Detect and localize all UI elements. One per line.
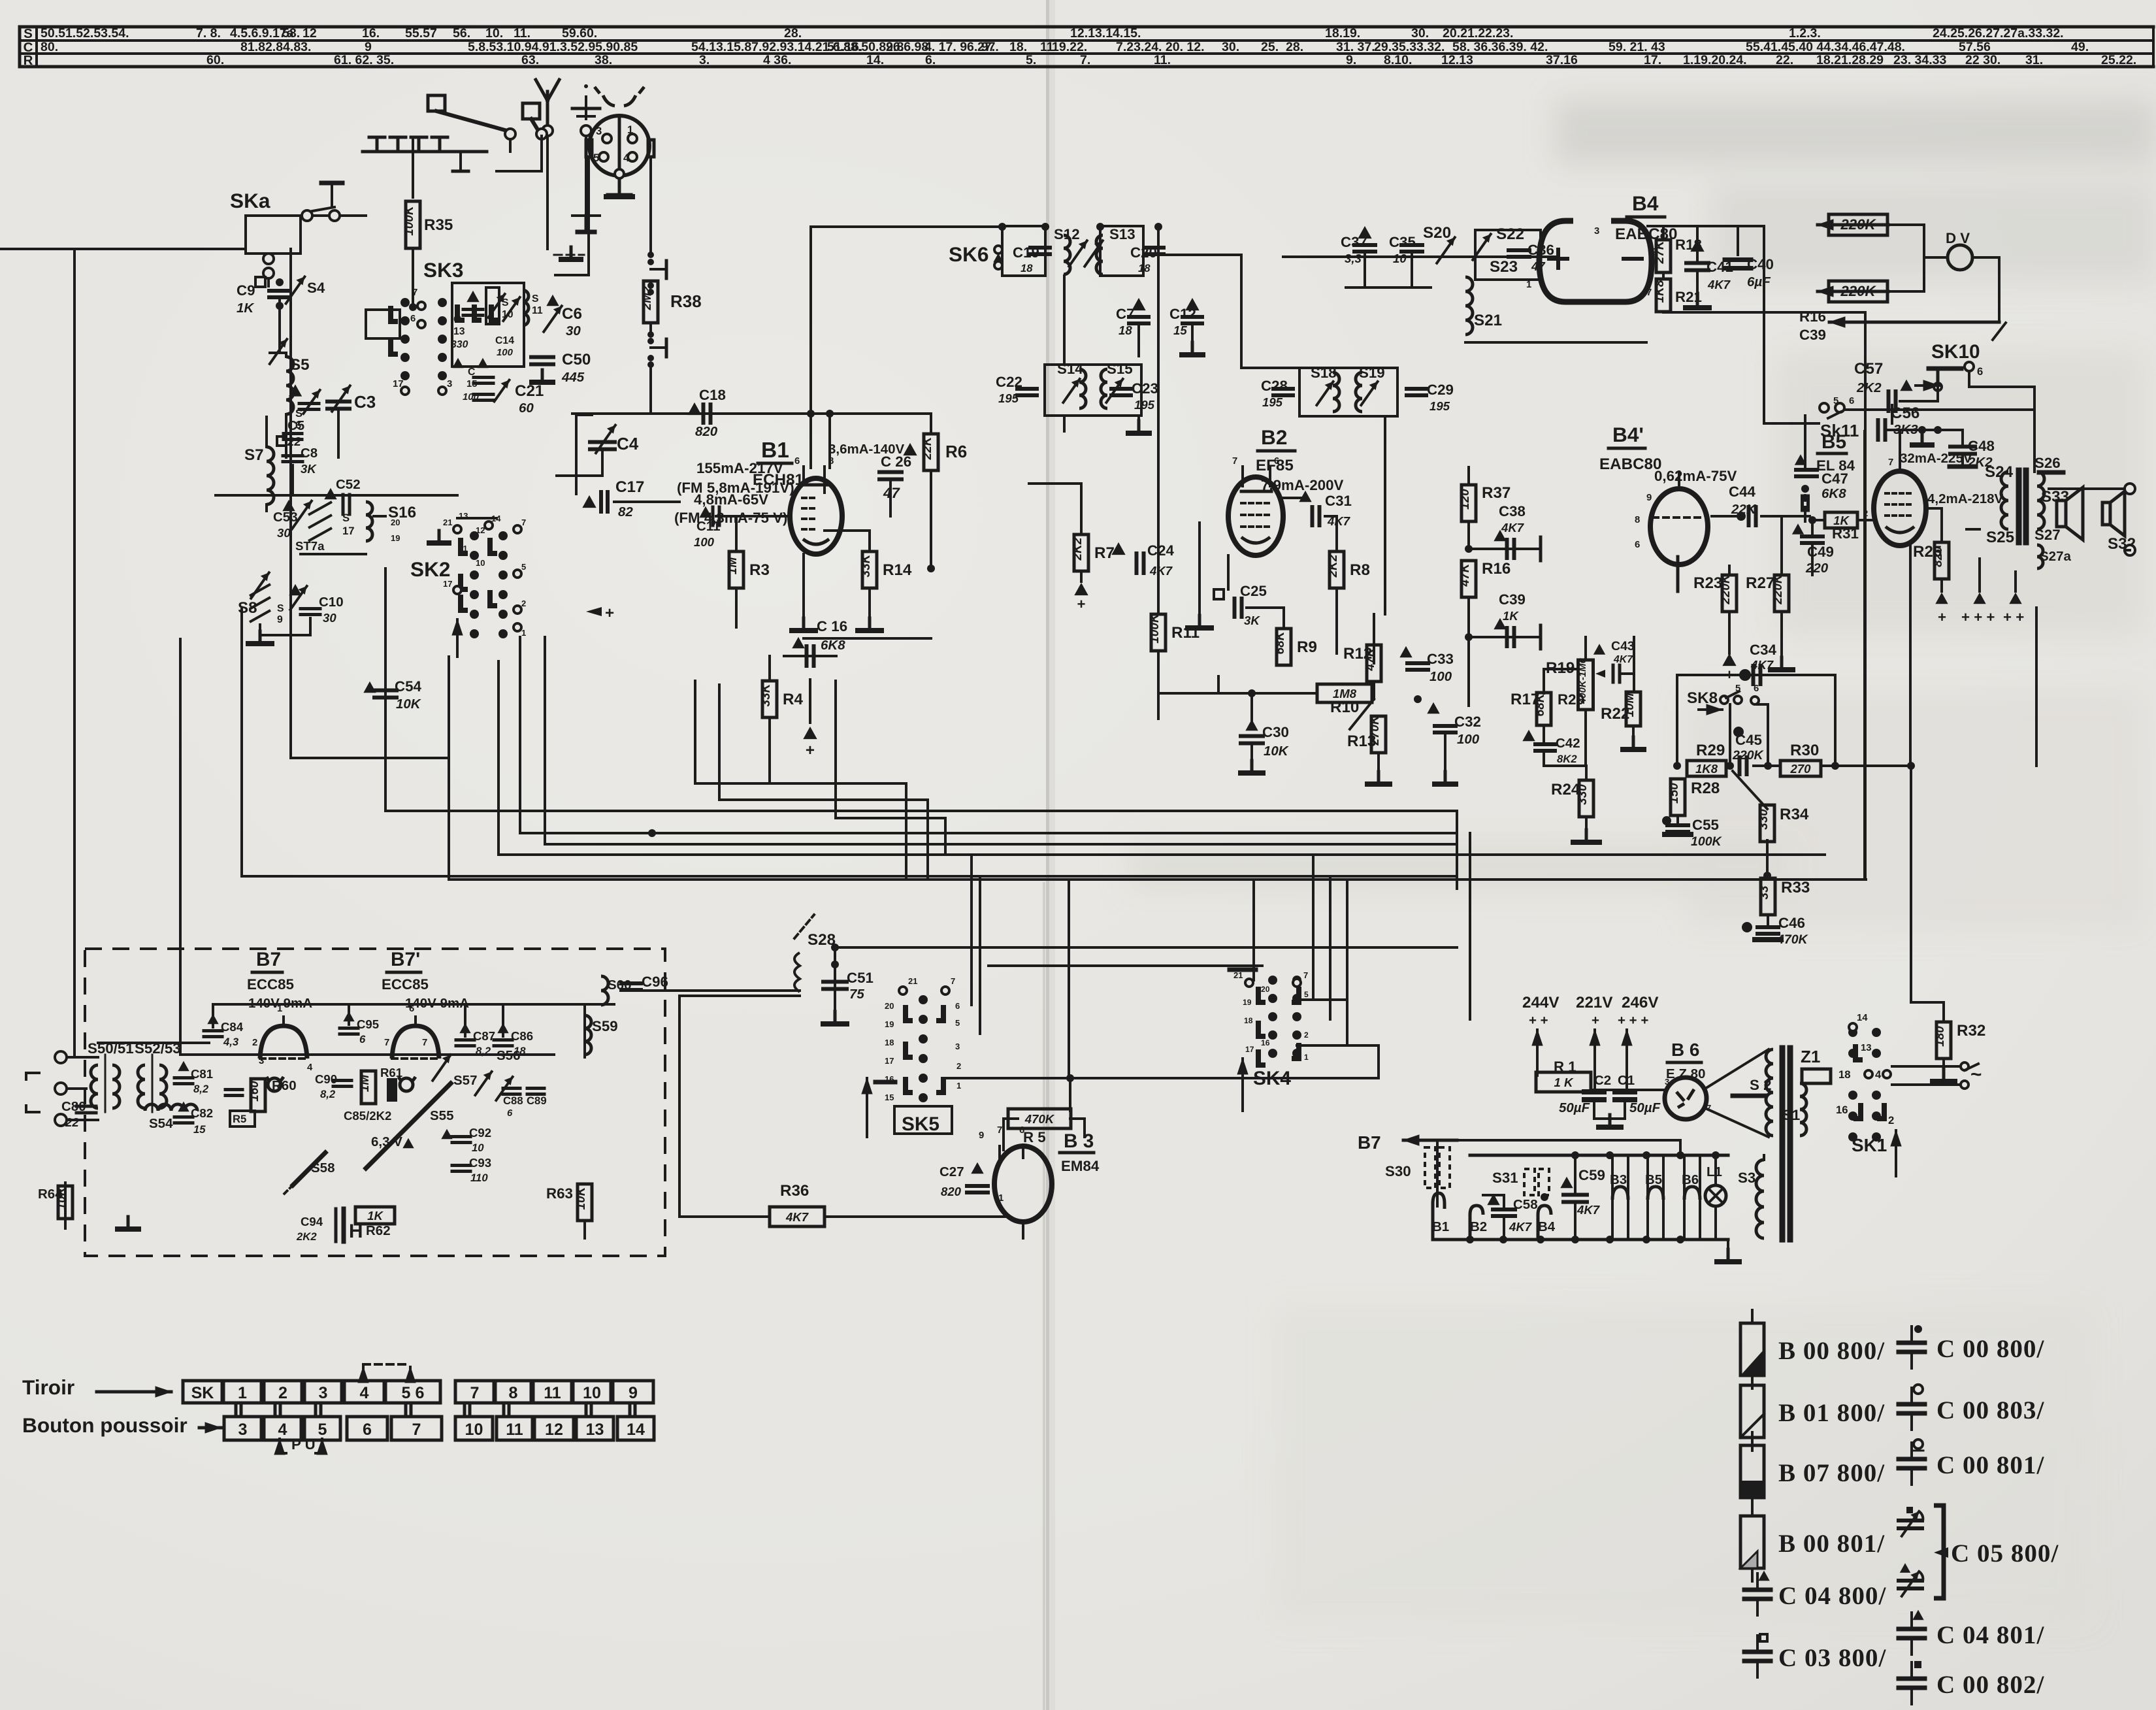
- svg-text:37.16: 37.16: [1546, 53, 1578, 67]
- svg-text:0,62mA-75V: 0,62mA-75V: [1654, 468, 1737, 484]
- svg-text:58. 36.36.39. 42.: 58. 36.36.39. 42.: [1452, 40, 1548, 54]
- svg-text:4K7: 4K7: [1501, 521, 1525, 534]
- svg-text:1: 1: [238, 1384, 247, 1402]
- svg-text:7.23.24. 20. 12.: 7.23.24. 20. 12.: [1116, 40, 1205, 54]
- svg-text:17: 17: [393, 379, 404, 389]
- svg-text:20: 20: [1261, 985, 1270, 994]
- svg-text:3,3: 3,3: [1345, 252, 1362, 265]
- svg-text:7: 7: [1232, 456, 1237, 467]
- svg-text:18: 18: [1119, 323, 1132, 337]
- svg-text:8: 8: [509, 1384, 518, 1402]
- svg-text:63.: 63.: [521, 53, 539, 67]
- svg-text:11: 11: [506, 1421, 523, 1439]
- svg-text:S13: S13: [1109, 226, 1135, 242]
- svg-text:C 05 800/: C 05 800/: [1951, 1539, 2059, 1568]
- svg-text:6: 6: [359, 1033, 366, 1045]
- svg-text:C31: C31: [1325, 493, 1352, 509]
- svg-text:1K: 1K: [367, 1209, 384, 1223]
- svg-text:C 00 800/: C 00 800/: [1936, 1335, 2044, 1363]
- svg-text:C3: C3: [354, 392, 376, 412]
- svg-text:10: 10: [502, 309, 514, 320]
- svg-text:7: 7: [412, 1421, 421, 1439]
- svg-text:3.: 3.: [699, 53, 710, 67]
- svg-text:195: 195: [1134, 398, 1155, 412]
- svg-text:11.: 11.: [514, 26, 531, 41]
- svg-text:5.: 5.: [1026, 53, 1036, 67]
- svg-text:S 2: S 2: [1750, 1077, 1771, 1093]
- svg-text:4: 4: [360, 1384, 369, 1402]
- svg-text:8,2: 8,2: [193, 1083, 209, 1095]
- svg-text:3: 3: [1665, 1077, 1669, 1087]
- svg-text:30: 30: [566, 323, 581, 338]
- svg-text:R7: R7: [1094, 544, 1115, 562]
- svg-text:C59: C59: [1578, 1167, 1605, 1183]
- svg-text:30.: 30.: [1222, 40, 1239, 54]
- svg-text:19: 19: [1243, 998, 1252, 1007]
- svg-text:23. 34.33: 23. 34.33: [1893, 53, 1946, 67]
- svg-text:C24: C24: [1147, 542, 1175, 559]
- svg-text:38.: 38.: [595, 53, 612, 67]
- svg-text:8: 8: [828, 456, 834, 467]
- svg-text:SK5: SK5: [902, 1113, 939, 1135]
- svg-text:1K: 1K: [1503, 609, 1519, 623]
- svg-text:R24: R24: [1551, 781, 1580, 798]
- svg-text:S24: S24: [1985, 463, 2014, 481]
- svg-text:1: 1: [627, 123, 633, 136]
- svg-text:1K: 1K: [237, 301, 255, 316]
- svg-text:4 36.: 4 36.: [763, 53, 791, 67]
- svg-text:100: 100: [1429, 669, 1452, 684]
- svg-text:B 3: B 3: [1064, 1130, 1094, 1152]
- svg-text:EABC80: EABC80: [1599, 455, 1661, 473]
- svg-text:25.: 25.: [1261, 40, 1279, 54]
- svg-text:C58: C58: [1513, 1197, 1538, 1212]
- svg-text:50.51.52.53.54.: 50.51.52.53.54.: [41, 26, 129, 41]
- svg-text:110: 110: [470, 1172, 488, 1184]
- svg-text:8K2: 8K2: [1557, 753, 1577, 765]
- svg-text:1: 1: [956, 1081, 961, 1091]
- svg-text:21: 21: [908, 976, 917, 986]
- svg-text:S1: S1: [1782, 1107, 1800, 1123]
- svg-text:47K: 47K: [1458, 563, 1472, 587]
- svg-text:4,3: 4,3: [223, 1036, 239, 1048]
- svg-text:B6: B6: [1682, 1172, 1699, 1187]
- svg-text:R28: R28: [1691, 780, 1720, 797]
- svg-text:C44: C44: [1729, 484, 1756, 500]
- svg-text:SK2: SK2: [410, 557, 450, 581]
- svg-text:100K: 100K: [1691, 834, 1723, 849]
- svg-text:SKa: SKa: [230, 189, 270, 212]
- svg-text:6: 6: [955, 1001, 960, 1011]
- svg-text:3K: 3K: [301, 462, 317, 476]
- svg-text:33: 33: [1757, 885, 1771, 900]
- svg-text:16: 16: [1836, 1104, 1848, 1116]
- svg-text:6: 6: [1019, 1125, 1024, 1136]
- svg-text:R23: R23: [1693, 574, 1722, 592]
- svg-text:30.: 30.: [1411, 26, 1429, 41]
- svg-text:R38: R38: [670, 291, 702, 311]
- svg-text:3: 3: [319, 1384, 328, 1402]
- svg-text:R37: R37: [1482, 484, 1511, 502]
- svg-text:12: 12: [476, 525, 485, 535]
- svg-text:8,2: 8,2: [476, 1045, 491, 1057]
- svg-text:1: 1: [277, 1004, 282, 1014]
- svg-text:12: 12: [302, 26, 317, 41]
- svg-text:C21: C21: [515, 382, 544, 400]
- svg-text:9.: 9.: [1346, 53, 1356, 67]
- svg-text:B5: B5: [1645, 1172, 1662, 1187]
- svg-text:8,2: 8,2: [320, 1088, 336, 1100]
- svg-text:18: 18: [885, 1038, 894, 1047]
- svg-text:18: 18: [514, 1045, 526, 1057]
- svg-text:1.19.20.24.: 1.19.20.24.: [1683, 53, 1747, 67]
- svg-text:57.56: 57.56: [1959, 40, 1991, 54]
- svg-text:C33: C33: [1427, 651, 1454, 667]
- svg-text:R35: R35: [424, 216, 453, 234]
- svg-text:C47: C47: [1821, 470, 1848, 487]
- svg-text:10.: 10.: [485, 26, 503, 41]
- svg-text:R8: R8: [1350, 561, 1370, 579]
- svg-text:7: 7: [422, 1038, 427, 1048]
- svg-text:C 26: C 26: [881, 453, 911, 470]
- svg-text:17: 17: [885, 1056, 894, 1066]
- svg-text:5: 5: [1833, 396, 1838, 406]
- svg-text:6: 6: [794, 456, 800, 467]
- svg-text:100: 100: [497, 348, 514, 358]
- svg-text:R25: R25: [1913, 543, 1942, 561]
- svg-text:R10: R10: [1330, 699, 1359, 716]
- svg-text:100: 100: [694, 535, 715, 549]
- svg-text:22.: 22.: [1776, 53, 1793, 67]
- svg-text:49.: 49.: [2071, 40, 2089, 54]
- svg-text:S: S: [502, 297, 509, 308]
- svg-text:55.57: 55.57: [405, 26, 437, 41]
- svg-text:C2: C2: [1594, 1073, 1611, 1088]
- svg-text:C 04 800/: C 04 800/: [1778, 1582, 1886, 1610]
- svg-text:18.21.28.29: 18.21.28.29: [1816, 53, 1884, 67]
- svg-text:9: 9: [277, 614, 283, 625]
- svg-text:29.35.33.32.: 29.35.33.32.: [1374, 40, 1445, 54]
- svg-text:6: 6: [410, 314, 416, 324]
- svg-text:+: +: [1725, 666, 1733, 683]
- svg-text:195: 195: [1262, 395, 1283, 409]
- svg-text:1K8: 1K8: [1653, 280, 1667, 303]
- svg-text:1: 1: [521, 628, 526, 638]
- svg-text:6µF: 6µF: [1747, 274, 1771, 289]
- svg-text:4K7: 4K7: [1613, 654, 1633, 665]
- svg-text:3: 3: [447, 379, 452, 389]
- svg-text:32mA-225V: 32mA-225V: [1900, 451, 1972, 466]
- svg-text:1M: 1M: [726, 557, 740, 575]
- svg-text:13: 13: [453, 326, 465, 337]
- svg-text:ST7a: ST7a: [295, 539, 325, 553]
- svg-text:SK10: SK10: [1931, 341, 1980, 363]
- svg-text:C43: C43: [1611, 639, 1635, 653]
- svg-text:C11: C11: [696, 519, 720, 534]
- svg-text:56.: 56.: [453, 26, 470, 41]
- svg-text:B4': B4': [1612, 423, 1644, 446]
- svg-text:17: 17: [1245, 1045, 1254, 1054]
- svg-text:C34: C34: [1750, 642, 1777, 658]
- svg-text:S30: S30: [1385, 1163, 1411, 1179]
- svg-text:10: 10: [476, 558, 485, 568]
- svg-text:4K7: 4K7: [1576, 1203, 1601, 1217]
- svg-text:11: 11: [459, 544, 468, 553]
- svg-text:12: 12: [545, 1421, 563, 1439]
- svg-text:4,8mA-65V: 4,8mA-65V: [694, 491, 768, 508]
- svg-text:C87: C87: [473, 1029, 495, 1043]
- svg-text:15: 15: [1173, 323, 1187, 337]
- svg-text:R3: R3: [749, 561, 770, 579]
- svg-text:C28: C28: [1261, 378, 1288, 394]
- svg-text:11.: 11.: [1154, 53, 1171, 67]
- svg-text:R16: R16: [1482, 560, 1511, 578]
- svg-text:S54: S54: [149, 1116, 173, 1131]
- svg-text:1K8: 1K8: [1695, 762, 1718, 776]
- svg-text:68K: 68K: [1273, 631, 1287, 654]
- svg-text:2: 2: [1304, 1030, 1309, 1040]
- svg-text:S58: S58: [311, 1160, 335, 1176]
- svg-text:R12: R12: [1343, 645, 1372, 663]
- svg-text:+: +: [1077, 596, 1085, 612]
- svg-text:13: 13: [1861, 1043, 1872, 1053]
- svg-text:D V: D V: [1946, 230, 1970, 246]
- svg-text:2: 2: [1863, 508, 1868, 518]
- svg-text:B3: B3: [1610, 1172, 1627, 1187]
- svg-text:(FM 4,3mA-75 V): (FM 4,3mA-75 V): [674, 510, 787, 526]
- svg-text:2K2: 2K2: [1071, 537, 1085, 561]
- svg-text:P U: P U: [291, 1436, 316, 1453]
- svg-text:R: R: [24, 53, 33, 68]
- svg-text:47: 47: [1531, 259, 1546, 273]
- svg-text:16: 16: [1261, 1038, 1270, 1047]
- svg-text:6.: 6.: [925, 53, 936, 67]
- svg-text:R29: R29: [1696, 742, 1725, 759]
- svg-text:31. 37.: 31. 37.: [1336, 40, 1375, 54]
- svg-text:9: 9: [629, 1384, 638, 1402]
- svg-text:C10: C10: [319, 595, 344, 610]
- svg-text:B2: B2: [1261, 425, 1287, 449]
- svg-text:SK8: SK8: [1687, 689, 1718, 707]
- svg-text:160: 160: [248, 1081, 261, 1102]
- svg-text:ECC85: ECC85: [382, 976, 429, 993]
- svg-text:7: 7: [521, 518, 526, 527]
- svg-text:6: 6: [363, 1421, 372, 1439]
- svg-text:17.: 17.: [1644, 53, 1661, 67]
- svg-text:1.2.3.: 1.2.3.: [1789, 26, 1821, 41]
- svg-text:20: 20: [885, 1001, 894, 1011]
- svg-text:4K7: 4K7: [1149, 564, 1173, 578]
- svg-text:S3: S3: [1738, 1170, 1756, 1186]
- svg-text:28.: 28.: [784, 26, 802, 41]
- svg-text:820: 820: [695, 424, 718, 439]
- svg-text:C84: C84: [221, 1020, 244, 1034]
- svg-text:C42: C42: [1556, 736, 1580, 751]
- svg-text:C55: C55: [1692, 817, 1719, 833]
- svg-text:C22: C22: [996, 374, 1022, 390]
- svg-text:C19: C19: [1013, 244, 1039, 261]
- svg-text:C14: C14: [495, 335, 514, 346]
- svg-text:R61: R61: [380, 1066, 402, 1079]
- svg-text:15: 15: [885, 1093, 894, 1102]
- svg-text:81.82.84.83.: 81.82.84.83.: [240, 40, 311, 54]
- svg-text:2: 2: [252, 1038, 257, 1048]
- svg-text:59. 21. 43: 59. 21. 43: [1609, 40, 1665, 54]
- svg-text:S20: S20: [1423, 224, 1451, 242]
- svg-text:2: 2: [278, 1384, 287, 1402]
- svg-text:B4: B4: [1632, 191, 1659, 215]
- svg-text:B 00 801/: B 00 801/: [1778, 1530, 1885, 1558]
- svg-text:C25: C25: [1240, 583, 1267, 599]
- svg-text:100K: 100K: [402, 205, 416, 236]
- svg-text:25.22.: 25.22.: [2101, 53, 2136, 67]
- svg-text:R63: R63: [546, 1185, 573, 1202]
- svg-text:2: 2: [1888, 1114, 1894, 1126]
- svg-text:+ +: + +: [2003, 609, 2024, 625]
- svg-text:C39: C39: [1499, 591, 1526, 608]
- svg-text:C93: C93: [469, 1156, 491, 1170]
- svg-text:7: 7: [412, 288, 417, 298]
- svg-text:16.: 16.: [362, 26, 380, 41]
- svg-text:S: S: [342, 512, 350, 524]
- svg-text:C45: C45: [1735, 732, 1762, 748]
- svg-text:244V: 244V: [1522, 994, 1560, 1011]
- svg-text:S19: S19: [1359, 365, 1385, 381]
- svg-text:S7: S7: [244, 446, 264, 464]
- svg-text:4: 4: [278, 1421, 287, 1439]
- svg-text:820: 820: [941, 1185, 962, 1198]
- svg-text:14: 14: [627, 1421, 645, 1439]
- svg-text:58.: 58.: [282, 26, 300, 41]
- svg-text:1: 1: [1304, 1053, 1309, 1062]
- svg-text:C 16: C 16: [817, 618, 847, 634]
- svg-text:61. 62.: 61. 62.: [334, 53, 373, 67]
- svg-text:2M2: 2M2: [640, 286, 654, 310]
- svg-text:24.25.26.27.27a.33.32.: 24.25.26.27.27a.33.32.: [1933, 26, 2064, 41]
- svg-text:6K8: 6K8: [1821, 486, 1846, 501]
- svg-text:C12: C12: [1169, 306, 1196, 322]
- svg-text:5: 5: [955, 1018, 960, 1028]
- svg-text:195: 195: [1429, 399, 1450, 413]
- svg-text:L1: L1: [1707, 1164, 1722, 1179]
- svg-text:13: 13: [459, 511, 468, 521]
- svg-text:445: 445: [561, 370, 585, 385]
- svg-text:120: 120: [1458, 489, 1472, 510]
- svg-text:R32: R32: [1957, 1022, 1985, 1040]
- svg-text:6: 6: [1977, 365, 1983, 378]
- svg-text:6: 6: [507, 1108, 513, 1119]
- svg-text:31.: 31.: [2025, 53, 2043, 67]
- svg-text:5: 5: [521, 562, 526, 572]
- svg-text:19: 19: [885, 1019, 894, 1029]
- svg-text:S57: S57: [453, 1073, 477, 1088]
- svg-text:17: 17: [443, 579, 452, 589]
- svg-text:5: 5: [1735, 683, 1740, 694]
- svg-text:7: 7: [1888, 457, 1893, 468]
- svg-text:3: 3: [1594, 226, 1599, 237]
- svg-text:22K: 22K: [921, 436, 934, 460]
- svg-text:9: 9: [1646, 493, 1652, 503]
- svg-text:C17: C17: [615, 478, 644, 496]
- svg-text:10K: 10K: [396, 697, 422, 712]
- svg-text:ECC85: ECC85: [247, 976, 294, 993]
- svg-text:SK: SK: [191, 1384, 214, 1402]
- svg-text:+: +: [1592, 1013, 1599, 1028]
- svg-text:S22: S22: [1496, 225, 1524, 243]
- svg-text:C86: C86: [511, 1029, 533, 1043]
- svg-text:R60: R60: [272, 1078, 297, 1093]
- svg-text:R6: R6: [945, 442, 967, 461]
- svg-text:S: S: [532, 293, 539, 304]
- svg-text:4K7: 4K7: [785, 1210, 809, 1224]
- svg-text:21: 21: [443, 518, 452, 527]
- svg-text:C46: C46: [1778, 915, 1805, 931]
- svg-text:4: 4: [307, 1062, 313, 1073]
- svg-text:S21: S21: [1474, 312, 1502, 329]
- svg-text:B1: B1: [761, 438, 789, 463]
- svg-text:2K2: 2K2: [296, 1230, 317, 1243]
- svg-text:27K: 27K: [1653, 240, 1667, 264]
- svg-text:6: 6: [1274, 456, 1279, 467]
- svg-text:60.: 60.: [206, 53, 224, 67]
- svg-text:C54: C54: [395, 678, 422, 695]
- svg-text:C35: C35: [1389, 234, 1416, 250]
- svg-text:50µF: 50µF: [1559, 1100, 1590, 1115]
- svg-text:5: 5: [593, 152, 599, 164]
- svg-text:17: 17: [342, 525, 355, 537]
- svg-text:S: S: [277, 603, 284, 614]
- svg-text:5: 5: [1304, 990, 1309, 999]
- svg-text:B5: B5: [1821, 431, 1846, 453]
- svg-text:221V: 221V: [1576, 994, 1613, 1011]
- svg-text:59.60.: 59.60.: [562, 26, 597, 41]
- svg-text:18: 18: [1021, 262, 1033, 274]
- svg-text:470K: 470K: [1776, 932, 1809, 947]
- svg-text:S4: S4: [307, 280, 325, 296]
- svg-text:100: 100: [1457, 732, 1480, 747]
- svg-text:C 04 801/: C 04 801/: [1936, 1621, 2044, 1649]
- svg-text:8.10.: 8.10.: [1384, 53, 1412, 67]
- svg-text:R9: R9: [1297, 638, 1317, 656]
- svg-text:50µF: 50µF: [1629, 1100, 1661, 1115]
- svg-text:13: 13: [586, 1421, 604, 1439]
- svg-text:C20: C20: [1130, 244, 1157, 261]
- svg-text:2: 2: [521, 599, 526, 608]
- svg-text:80.: 80.: [41, 40, 58, 54]
- svg-text:3: 3: [238, 1421, 248, 1439]
- svg-text:246V: 246V: [1622, 994, 1659, 1011]
- svg-text:18: 18: [1244, 1016, 1253, 1025]
- svg-text:R33: R33: [1781, 879, 1810, 896]
- svg-text:18.19.: 18.19.: [1325, 26, 1360, 41]
- svg-text:EM84: EM84: [1061, 1158, 1100, 1174]
- svg-text:C82: C82: [191, 1106, 213, 1120]
- svg-text:R34: R34: [1780, 806, 1809, 823]
- svg-text:30: 30: [323, 611, 336, 625]
- svg-text:B 07 800/: B 07 800/: [1778, 1459, 1885, 1487]
- svg-text:R64: R64: [38, 1187, 63, 1202]
- svg-text:220: 220: [1805, 561, 1829, 576]
- svg-text:4: 4: [1875, 1068, 1882, 1081]
- svg-text:3K: 3K: [1244, 614, 1260, 627]
- svg-text:7.: 7.: [1080, 53, 1090, 67]
- svg-text:22: 22: [65, 1115, 79, 1129]
- svg-text:C7: C7: [1116, 306, 1135, 322]
- svg-text:C39: C39: [1799, 327, 1826, 343]
- svg-text:11: 11: [544, 1384, 561, 1402]
- svg-text:20.21.22.23.: 20.21.22.23.: [1443, 26, 1513, 41]
- svg-text:7: 7: [1303, 970, 1308, 980]
